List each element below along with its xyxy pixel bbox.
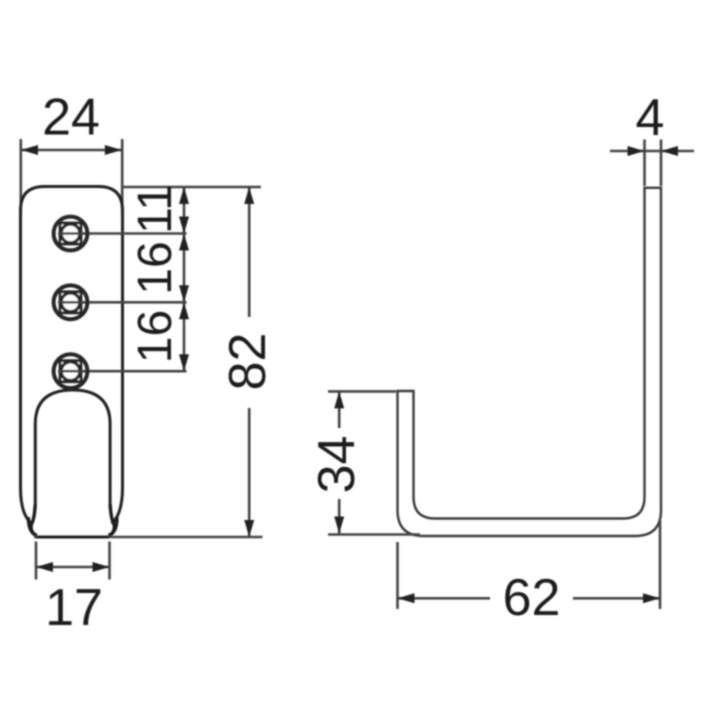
svg-text:16: 16 — [129, 241, 182, 294]
hook profile — [398, 188, 662, 536]
screw hole 3 — [54, 354, 88, 388]
svg-text:24: 24 — [42, 89, 100, 147]
svg-text:34: 34 — [308, 436, 366, 494]
chain arrows at hole2 — [179, 285, 189, 302]
bottom edge of plate / extension to dim 82 — [34, 536, 263, 539]
bottom edge dark part between feet — [36, 536, 109, 539]
dim 34 bottom extension — [328, 533, 420, 536]
svg-text:62: 62 — [503, 569, 561, 627]
chain arrow up at top — [179, 187, 189, 204]
leader line hole 3 — [71, 370, 187, 373]
arrow down dim 34 — [334, 517, 344, 534]
right foot knot — [109, 517, 117, 535]
dim 4 line with outside tails — [610, 150, 694, 153]
dimension line 24 — [21, 149, 122, 152]
screw hole 1 — [54, 217, 88, 251]
dim 62 extension right — [659, 520, 662, 609]
dim 4 extension lines — [643, 140, 646, 187]
dim 17 extension left — [35, 542, 38, 580]
dim 17 extension right — [108, 542, 111, 580]
svg-text:4: 4 — [636, 89, 665, 147]
hook arm dome (front) — [35, 390, 110, 504]
top extension line to dim 82 — [123, 186, 262, 189]
plate outline — [21, 187, 123, 524]
arrow right dim 62 — [643, 593, 660, 603]
arrow right of dim 24 — [105, 145, 122, 155]
arrow left dim 62 — [398, 593, 415, 603]
chain dimension line (11/16/16) — [183, 187, 186, 371]
extension line left of dim 24 — [19, 139, 22, 214]
arrow up dim 82 — [244, 187, 254, 204]
dim 17 line — [36, 566, 110, 569]
screw hole 2 — [54, 285, 88, 319]
dim 34 line — [338, 391, 341, 428]
svg-text:17: 17 — [45, 579, 103, 637]
leader line hole 2 — [71, 301, 187, 304]
left foot knot — [28, 517, 36, 535]
svg-text:11: 11 — [129, 184, 182, 234]
left foot curl — [31, 504, 37, 535]
svg-text:16: 16 — [129, 310, 182, 363]
arrow pointing left at right ext — [661, 146, 678, 156]
right foot curl — [108, 504, 114, 535]
chain arrows at hole1 — [179, 217, 189, 234]
arrow up dim 34 — [334, 391, 344, 408]
arrow right dim 17 — [93, 562, 110, 572]
dim 62 extension left — [396, 542, 399, 609]
chain arrow down at hole3 — [179, 354, 189, 371]
arrow pointing right at left ext — [628, 146, 645, 156]
svg-text:82: 82 — [219, 333, 277, 391]
extension line right of dim 24 — [121, 139, 124, 214]
dim 82 line — [248, 187, 251, 317]
dim 62 line — [398, 597, 491, 600]
arrow down dim 82 — [244, 520, 254, 537]
arrow left dim 17 — [36, 562, 53, 572]
dim 34 top extension — [328, 390, 396, 393]
leader line hole 1 — [71, 232, 187, 235]
arrow left of dim 24 — [21, 145, 38, 155]
